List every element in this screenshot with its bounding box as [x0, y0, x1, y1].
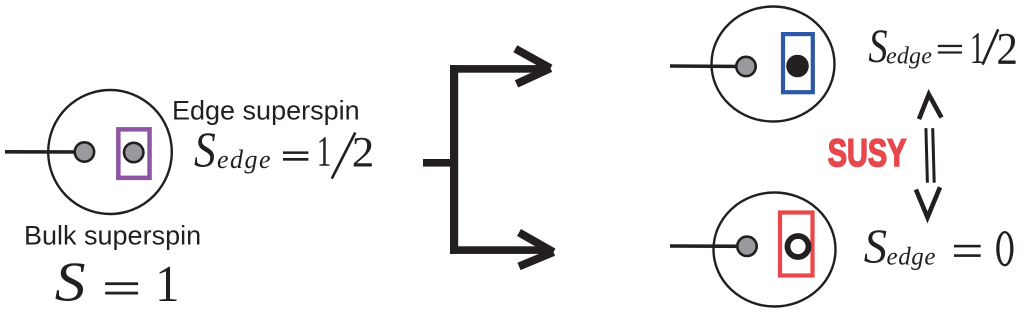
edge spin gray dot: [124, 143, 143, 162]
svg-text:Bulk superspin: Bulk superspin: [24, 221, 201, 251]
fork left stub: [423, 159, 456, 167]
fork top arrowhead: [515, 49, 550, 84]
left bulk circle: [48, 90, 172, 214]
svg-text:edge: edge: [886, 43, 932, 69]
formula S_edge = 1/2 (left): [194, 122, 374, 178]
wire into left circle: [5, 150, 84, 154]
fork bottom branch: [450, 246, 551, 254]
fork top branch: [450, 65, 549, 73]
fork bottom arrowhead: [519, 233, 554, 267]
bottom-right gray dot: [737, 237, 756, 256]
svg-text:1: 1: [155, 254, 179, 312]
top-right gray dot: [736, 57, 755, 76]
formula S_edge = 1/2 (top right): [868, 20, 1018, 74]
red edge box: [780, 213, 813, 276]
svg-text:S: S: [194, 122, 216, 177]
svg-text:2: 2: [352, 128, 375, 176]
SUSY double arrow: top chevron: [919, 94, 942, 119]
svg-text:S: S: [864, 219, 887, 273]
wire into bottom-right circle: [670, 244, 747, 248]
open ring (spin 0 edge): [788, 236, 809, 257]
svg-text:2: 2: [996, 24, 1018, 74]
svg-text:Edge superspin: Edge superspin: [172, 96, 360, 126]
bulk spin gray dot: [75, 142, 94, 161]
blue edge box: [783, 34, 813, 92]
wire into top-right circle: [670, 64, 746, 68]
svg-text:S: S: [55, 251, 86, 313]
fork vertical trunk: [450, 65, 458, 254]
svg-text:edge: edge: [887, 244, 937, 271]
SUSY double arrow: bottom chevron: [916, 187, 940, 217]
svg-text:SUSY: SUSY: [828, 132, 907, 175]
svg-text:1: 1: [970, 24, 985, 74]
svg-text:1: 1: [317, 127, 332, 175]
black filled dot (spin 1/2 edge): [786, 55, 809, 78]
SUSY double arrow: double shaft: [926, 128, 934, 183]
top-right circle: [712, 7, 835, 122]
svg-text:edge: edge: [217, 145, 272, 174]
formula S = 1 (bulk): [55, 251, 180, 313]
bottom-right circle: [714, 193, 836, 307]
purple edge box: [118, 129, 149, 178]
formula S_edge = 0 (bottom right): [864, 219, 1014, 273]
svg-text:S: S: [868, 20, 887, 73]
